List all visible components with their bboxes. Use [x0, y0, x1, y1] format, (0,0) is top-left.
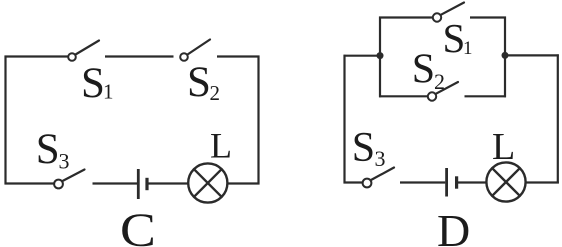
wire D S2-branch left segment [379, 95, 428, 97]
wire D battery-to-lamp segment [457, 181, 487, 183]
node right junction (circuit D) [502, 52, 509, 59]
wire D left vertical [343, 55, 345, 184]
label S2 (circuit D) [412, 47, 445, 95]
svg-text:C: C [120, 205, 156, 247]
svg-text:S: S [81, 60, 105, 107]
lamp L (circuit C) [188, 163, 227, 202]
wire C battery-to-lamp segment [147, 182, 188, 184]
wire D bottom-right segment [526, 181, 559, 183]
wire C top-middle segment [105, 55, 174, 57]
wire D bottom-left segment [344, 181, 363, 183]
svg-text:3: 3 [59, 149, 70, 174]
lamp L (circuit D) [486, 162, 525, 201]
switch S2 (circuit C) [180, 40, 210, 61]
svg-text:1: 1 [103, 80, 114, 104]
switch S3 (circuit D) [363, 168, 394, 188]
label S3 (circuit D) [352, 125, 386, 171]
svg-text:D: D [437, 205, 470, 247]
svg-text:1: 1 [463, 38, 473, 59]
svg-text:S: S [36, 126, 60, 173]
svg-text:3: 3 [375, 146, 386, 171]
wire C right vertical [257, 56, 259, 185]
svg-text:S: S [352, 125, 375, 171]
wire D S1-branch left segment [379, 16, 433, 18]
wire D right node to corner [505, 54, 559, 56]
wire C top-left segment [5, 55, 69, 57]
node left junction (circuit D) [377, 52, 384, 59]
svg-text:S: S [443, 15, 466, 61]
wire C bottom-left segment [5, 182, 55, 184]
wire D S1-branch right segment [470, 16, 506, 18]
wire C S3-to-battery segment [93, 182, 138, 184]
wire D S2-branch right segment [465, 95, 507, 97]
wire C bottom-right segment [227, 182, 260, 184]
wire D S1-branch right drop [504, 17, 506, 56]
switch S3 (circuit C) [54, 170, 84, 189]
switch S2 (circuit D) [428, 82, 458, 101]
wire D right vertical [557, 54, 559, 183]
wire D dropper left node to S2 branch [379, 56, 381, 98]
label S2 (circuit C) [187, 59, 220, 106]
label S1 (circuit C) [81, 60, 114, 107]
label S1 (circuit D) [443, 15, 473, 61]
switch S1 (circuit C) [68, 41, 99, 61]
svg-text:L: L [492, 126, 515, 168]
svg-text:2: 2 [210, 81, 221, 105]
battery cell (circuit D) [447, 168, 457, 197]
svg-text:2: 2 [434, 69, 445, 94]
wire D S3-to-battery segment [400, 181, 445, 183]
switch S1 (circuit D) [433, 3, 464, 22]
wire C left vertical [4, 56, 6, 185]
svg-text:S: S [412, 47, 435, 93]
svg-text:S: S [187, 59, 211, 106]
wire D riser left node to S1 branch [379, 17, 381, 56]
battery cell (circuit C) [138, 169, 147, 199]
svg-text:L: L [210, 126, 232, 166]
wire D top segment to left node [344, 55, 378, 57]
label S3 (circuit C) [36, 126, 70, 174]
wire C top-right segment [217, 55, 260, 57]
wire D S2-branch right riser [504, 55, 506, 97]
